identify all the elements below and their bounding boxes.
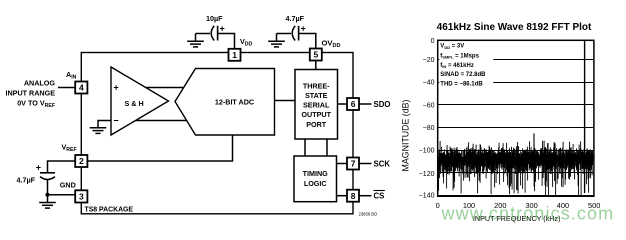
pin 1: [229, 49, 241, 61]
bus output port to timing logic: [304, 139, 306, 156]
svg-text:OVDD: OVDD: [322, 39, 341, 50]
svg-text:−60: −60: [423, 102, 435, 109]
svg-text:THD = −86.1dB: THD = −86.1dB: [440, 82, 483, 88]
svg-text:VDD: VDD: [240, 37, 253, 47]
pin 7: [347, 158, 359, 170]
chart annotations: [439, 43, 493, 88]
capacitor C2 4.7uF plates: [292, 26, 295, 41]
svg-text:−100: −100: [419, 148, 435, 155]
pin 2: [75, 155, 87, 167]
svg-text:fIN = 461kHz: fIN = 461kHz: [440, 63, 474, 69]
wire AIN input to pin 4: [58, 87, 75, 89]
pin 8: [347, 190, 359, 202]
svg-text:6: 6: [351, 99, 356, 109]
ground S&H minus: [90, 128, 107, 134]
wire C1 to pin 1: [218, 34, 235, 49]
svg-text:fSMPL = 1Msps: fSMPL = 1Msps: [440, 53, 479, 59]
ground for C3: [39, 203, 56, 209]
schematic labels: [5, 14, 390, 216]
harmonic spike: [533, 133, 535, 172]
svg-text:INPUT RANGE: INPUT RANGE: [5, 88, 55, 97]
capacitor C1 10uF plates: [211, 26, 214, 41]
block 12-BIT ADC: [175, 69, 275, 136]
x axis labels: [436, 201, 601, 210]
svg-text:OUTPUT: OUTPUT: [301, 110, 331, 119]
wire ground to S&H - input: [98, 121, 111, 128]
svg-text:0V TO VREF: 0V TO VREF: [17, 98, 55, 108]
capacitor C1 10uF wire ground side: [196, 33, 211, 35]
svg-text:SCK: SCK: [374, 160, 391, 169]
wire pin 5 to output port block: [315, 61, 317, 70]
svg-text:−80: −80: [423, 125, 435, 132]
svg-text:STATE: STATE: [305, 91, 328, 100]
svg-text:CS: CS: [374, 192, 385, 201]
wire timing logic to pin 8: [337, 195, 348, 197]
svg-text:23656 BD: 23656 BD: [359, 211, 378, 216]
svg-text:+: +: [36, 163, 41, 173]
svg-text:8: 8: [351, 191, 356, 201]
svg-text:−40: −40: [423, 80, 435, 87]
svg-text:+: +: [220, 24, 225, 34]
svg-text:0: 0: [431, 38, 435, 45]
wire C3 to ground and pin 3: [48, 180, 76, 195]
svg-text:0: 0: [436, 201, 440, 210]
wire pin 6 to SDO: [359, 103, 372, 105]
ground for C1: [187, 34, 204, 47]
chart gridlines: [438, 60, 593, 173]
svg-text:SERIAL: SERIAL: [303, 101, 330, 110]
op-amp S&H U1: [111, 67, 169, 135]
svg-text:PORT: PORT: [306, 120, 327, 129]
wire ADC to output port: [275, 100, 296, 102]
pin 5: [310, 49, 322, 61]
svg-text:VREF: VREF: [62, 143, 77, 153]
svg-text:LOGIC: LOGIC: [304, 179, 327, 188]
pin 4: [75, 82, 87, 94]
svg-text:7: 7: [351, 159, 356, 169]
svg-text:ANALOG: ANALOG: [24, 79, 56, 88]
wire timing logic to pin 7: [337, 163, 348, 165]
pin 6: [347, 98, 359, 110]
pin boxes: [75, 49, 359, 203]
wire S&H - output to ADC: [134, 120, 188, 122]
svg-text:AIN: AIN: [66, 70, 77, 80]
y axis labels: [419, 38, 435, 200]
wire S&H + output to ADC: [144, 87, 185, 89]
wire pin 2 to capacitor C3: [48, 161, 76, 173]
package outline TS8: [81, 53, 353, 214]
junction dot C3/GND: [45, 193, 49, 197]
svg-text:1: 1: [232, 50, 237, 60]
svg-text:−120: −120: [419, 171, 435, 178]
svg-text:TS8 PACKAGE: TS8 PACKAGE: [85, 207, 134, 214]
wire pin 7 to SCK: [359, 163, 372, 165]
svg-text:4.7µF: 4.7µF: [17, 175, 36, 184]
svg-text:GND: GND: [60, 180, 76, 189]
svg-text:−: −: [114, 116, 119, 126]
svg-text:3: 3: [79, 192, 84, 202]
svg-text:2: 2: [79, 156, 84, 166]
svg-text:−20: −20: [423, 57, 435, 64]
svg-text:12-BIT ADC: 12-BIT ADC: [215, 97, 254, 106]
svg-text:SDO: SDO: [374, 100, 391, 109]
svg-text:www.cntronics.com: www.cntronics.com: [441, 204, 615, 224]
svg-text:S & H: S & H: [125, 99, 144, 108]
ground for C2: [268, 34, 285, 47]
svg-text:VDD = 3V: VDD = 3V: [440, 44, 464, 50]
svg-text:5: 5: [314, 50, 319, 60]
block timing logic: [294, 156, 337, 202]
svg-text:10µF: 10µF: [206, 14, 223, 23]
wire pin 2 VREF to ADC: [87, 135, 232, 161]
pin 3: [75, 190, 87, 202]
svg-text:4: 4: [79, 83, 84, 93]
svg-text:461kHz Sine Wave 8192 FFT Plot: 461kHz Sine Wave 8192 FFT Plot: [437, 22, 592, 33]
svg-text:+: +: [301, 24, 306, 34]
svg-text:TIMING: TIMING: [303, 169, 329, 178]
chart noise floor: [439, 141, 593, 195]
svg-text:−140: −140: [419, 193, 435, 200]
overline for CS: [374, 190, 385, 192]
svg-text:MAGNITUDE (dB): MAGNITUDE (dB): [401, 100, 411, 172]
svg-text:SINAD = 72.8dB: SINAD = 72.8dB: [440, 72, 486, 78]
fundamental spike 461kHz: [584, 41, 586, 193]
block three-state serial output port: [295, 70, 338, 140]
svg-text:THREE-: THREE-: [303, 81, 330, 90]
svg-text:+: +: [114, 83, 119, 93]
capacitor C2 4.7uF wire ground side: [277, 33, 292, 35]
wire output port to pin 6: [338, 103, 348, 105]
svg-text:4.7µF: 4.7µF: [286, 14, 305, 23]
chart frame: [438, 40, 594, 196]
wire C2 to pin 5: [299, 34, 316, 49]
wire pin 8 to CS: [359, 195, 372, 197]
capacitor C3 4.7uF plates: [40, 172, 55, 174]
